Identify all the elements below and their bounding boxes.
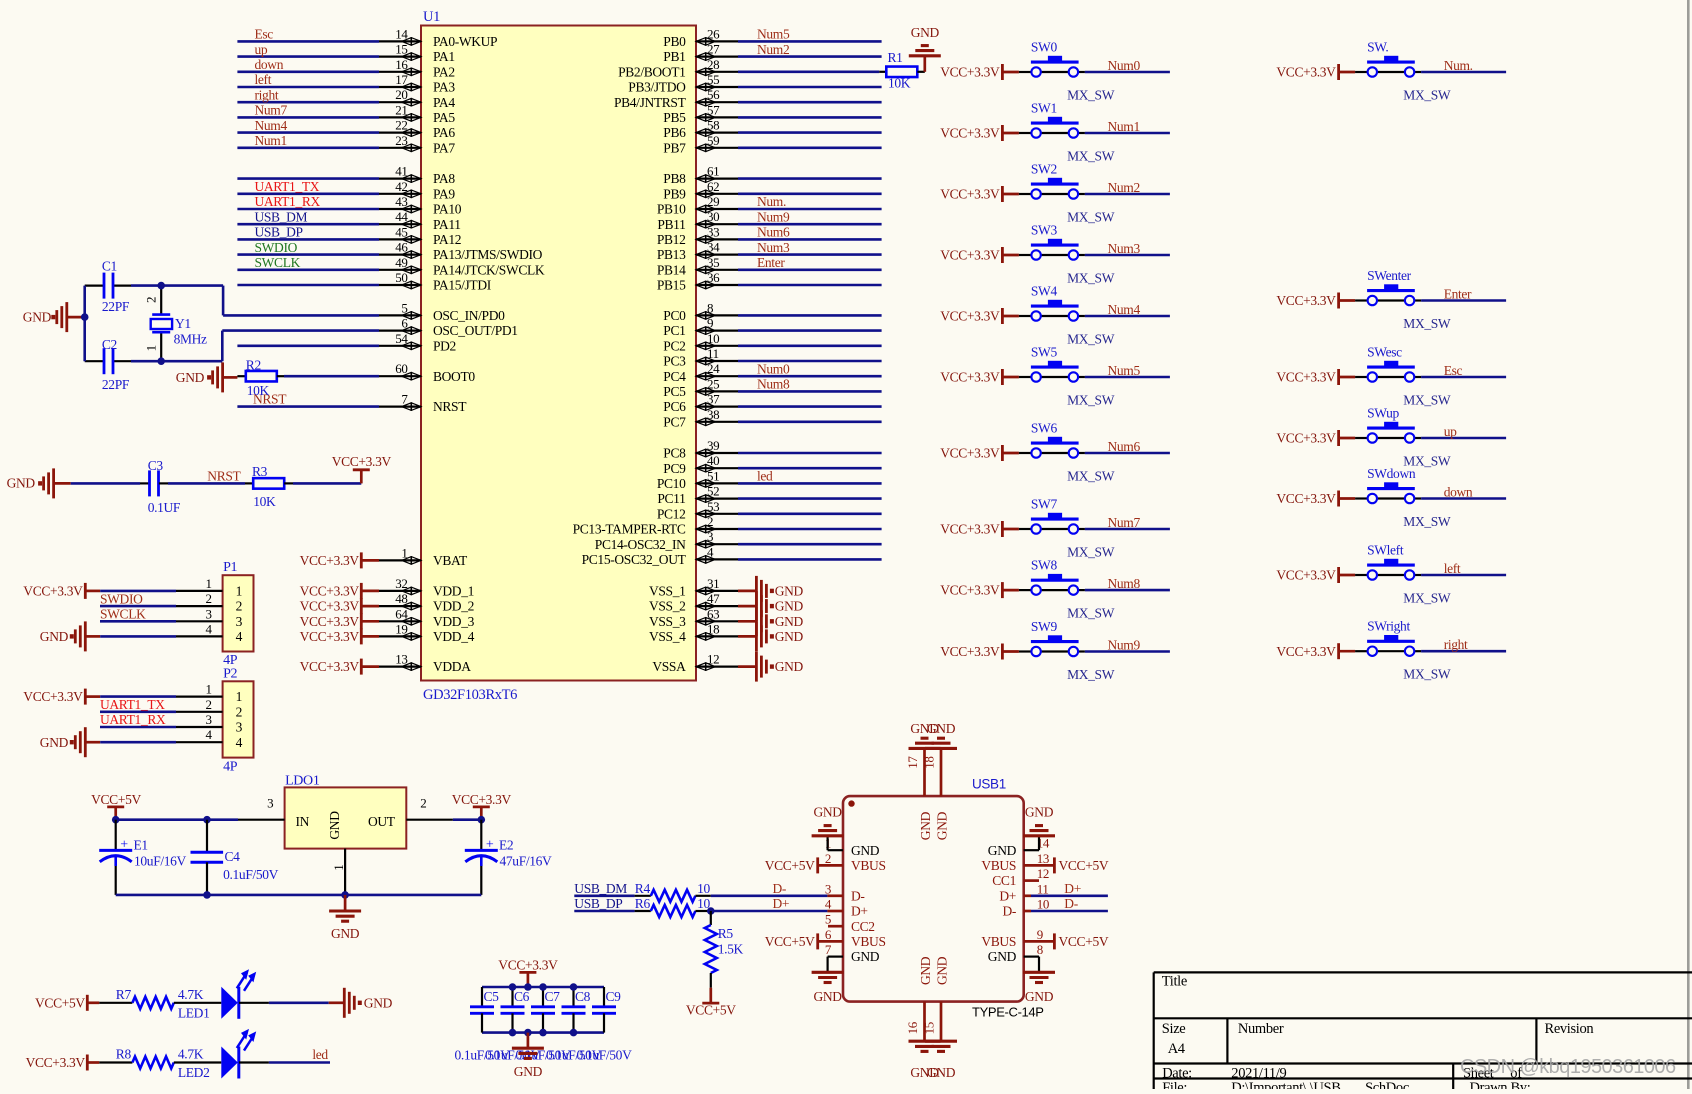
- net label USB_DM: [255, 209, 308, 224]
- svg-text:VCC+3.3V: VCC+3.3V: [940, 248, 1000, 263]
- pin 38 PC7: [663, 407, 738, 430]
- power VCC+3.3V at SW4: [940, 308, 1019, 324]
- svg-text:12: 12: [1037, 866, 1049, 881]
- net label Num2: [757, 42, 789, 57]
- svg-text:56: 56: [707, 87, 720, 102]
- svg-text:GND: GND: [851, 843, 880, 858]
- svg-text:SWdown: SWdown: [1367, 466, 1416, 481]
- junction cap bank top: [509, 983, 517, 991]
- wire crystal left vertical: [83, 286, 86, 362]
- svg-text:50: 50: [395, 270, 407, 285]
- power VCC+5V: [35, 995, 99, 1011]
- svg-text:Num0: Num0: [757, 361, 790, 376]
- wire net from pin 36: [738, 284, 882, 287]
- svg-text:42: 42: [395, 179, 407, 194]
- net label up: [1444, 424, 1457, 439]
- connector P2 body: [223, 666, 254, 774]
- pin 61 PB8: [663, 164, 738, 187]
- svg-text:4: 4: [205, 727, 212, 742]
- value 0.1uF/50V of C5: [455, 1048, 511, 1063]
- net label Num3: [1108, 241, 1141, 256]
- svg-text:GND: GND: [775, 614, 804, 629]
- pin 11 PC3: [663, 346, 738, 369]
- wire Num3: [1085, 254, 1170, 257]
- pin 35 PB14: [657, 255, 738, 278]
- svg-text:10K: 10K: [888, 76, 911, 91]
- junction C4 top: [203, 816, 211, 824]
- svg-text:Enter: Enter: [757, 255, 785, 270]
- svg-text:Enter: Enter: [1444, 286, 1472, 301]
- wire net from pin 62: [738, 193, 882, 196]
- svg-text:2: 2: [707, 514, 713, 529]
- pin 12 CC1 of USB1: [992, 866, 1049, 888]
- wire net from pin 10: [738, 344, 882, 347]
- net label down: [1444, 484, 1473, 499]
- svg-text:2: 2: [236, 599, 242, 614]
- pin 19 VDD_4: [379, 621, 475, 644]
- switch SWup: [1355, 406, 1451, 469]
- svg-text:VDDA: VDDA: [433, 659, 471, 674]
- wire LDO GND pin 1: [331, 849, 346, 895]
- svg-text:PC14-OSC32_IN: PC14-OSC32_IN: [595, 537, 686, 552]
- svg-text:SW6: SW6: [1031, 421, 1058, 436]
- power VCC+3.3V at SW7: [940, 521, 1019, 537]
- switch SW6: [1019, 421, 1115, 484]
- wire net to pin 43: [237, 208, 379, 211]
- pin 3 of P1: [176, 606, 243, 629]
- svg-text:SWCLK: SWCLK: [255, 255, 301, 270]
- svg-text:MX_SW: MX_SW: [1403, 316, 1451, 331]
- switch SW8: [1019, 558, 1115, 621]
- pin 14 GND of USB1: [988, 836, 1050, 858]
- switch SW4: [1019, 284, 1115, 347]
- svg-text:62: 62: [707, 179, 719, 194]
- svg-text:35: 35: [707, 255, 719, 270]
- wire net from pin 57: [738, 116, 882, 119]
- pin 29 PB10: [657, 194, 738, 217]
- svg-text:16: 16: [905, 1021, 920, 1034]
- svg-text:60: 60: [395, 361, 407, 376]
- svg-text:PC0: PC0: [663, 308, 686, 323]
- pin 52 PC11: [657, 484, 738, 507]
- pin 5 OSC_IN/PD0: [379, 300, 505, 323]
- svg-text:led: led: [757, 469, 773, 484]
- svg-text:Num.: Num.: [757, 194, 786, 209]
- svg-text:VBUS: VBUS: [851, 934, 886, 949]
- svg-text:19: 19: [395, 621, 407, 636]
- power VCC+3.3V at SW9: [940, 644, 1019, 660]
- svg-text:55: 55: [707, 72, 719, 87]
- svg-text:D+: D+: [851, 904, 868, 919]
- value 0.1uF/50V of C7: [516, 1048, 572, 1063]
- LED LED1: [178, 969, 256, 1020]
- pin 28 PB2/BOOT1: [618, 57, 738, 80]
- svg-text:9: 9: [707, 316, 713, 331]
- svg-text:Num8: Num8: [1108, 576, 1141, 591]
- svg-text:left: left: [255, 72, 272, 87]
- svg-text:38: 38: [707, 407, 719, 422]
- svg-text:D-: D-: [773, 881, 787, 896]
- pin 31 VSS_1: [649, 576, 738, 599]
- svg-text:VCC+3.3V: VCC+3.3V: [940, 644, 1000, 659]
- svg-text:20: 20: [395, 87, 407, 102]
- svg-text:Num4: Num4: [255, 118, 288, 133]
- pin 10 PC2: [663, 331, 738, 354]
- pin 18 GND of USB1: [922, 748, 950, 840]
- net label Num.: [757, 194, 786, 209]
- svg-text:39: 39: [707, 438, 719, 453]
- svg-text:59: 59: [707, 133, 719, 148]
- svg-text:VCC+3.3V: VCC+3.3V: [1276, 568, 1336, 583]
- svg-text:27: 27: [707, 42, 720, 57]
- power VCC+3.3V at SWdown: [1276, 491, 1355, 507]
- svg-text:4: 4: [825, 897, 832, 912]
- wire Esc: [1421, 376, 1506, 379]
- ground at VSS_2: [738, 591, 803, 621]
- svg-text:PA10: PA10: [433, 202, 462, 217]
- wire net from pin 51: [738, 482, 882, 485]
- svg-text:VCC+3.3V: VCC+3.3V: [300, 584, 360, 599]
- svg-text:OSC_OUT/PD1: OSC_OUT/PD1: [433, 323, 518, 338]
- svg-text:SW5: SW5: [1031, 345, 1058, 360]
- pin 14 PA0-WKUP: [379, 26, 497, 49]
- net label Num4: [255, 118, 288, 133]
- svg-text:32: 32: [395, 576, 407, 591]
- pin 30 PB11: [657, 209, 738, 232]
- svg-text:2: 2: [825, 851, 831, 866]
- wire VCC+5V to IN pin 3: [116, 796, 285, 820]
- capacitor C3: [148, 458, 181, 515]
- svg-text:VBUS: VBUS: [981, 934, 1016, 949]
- svg-text:2: 2: [205, 697, 211, 712]
- svg-text:PC11: PC11: [657, 491, 685, 506]
- svg-text:GND: GND: [775, 659, 804, 674]
- ground LDO: [329, 895, 361, 941]
- pin 2 VBUS of USB1: [818, 851, 886, 873]
- svg-text:PB5: PB5: [663, 110, 686, 125]
- svg-text:44: 44: [395, 209, 408, 224]
- svg-text:0.1uF/50V: 0.1uF/50V: [223, 867, 279, 882]
- svg-text:UART1_RX: UART1_RX: [100, 712, 166, 727]
- svg-text:25: 25: [707, 376, 719, 391]
- pin 1 VBAT: [379, 545, 468, 568]
- svg-text:61: 61: [707, 164, 719, 179]
- wire net from pin 3: [738, 543, 882, 546]
- svg-text:21: 21: [395, 102, 407, 117]
- capacitor C6: [501, 987, 530, 1033]
- svg-text:R6: R6: [635, 896, 651, 911]
- wire up: [1421, 437, 1506, 440]
- wire left: [1421, 574, 1506, 577]
- svg-text:VCC+3.3V: VCC+3.3V: [300, 599, 360, 614]
- svg-text:PA1: PA1: [433, 49, 455, 64]
- svg-text:VBAT: VBAT: [433, 553, 468, 568]
- wire Enter: [1421, 299, 1506, 302]
- svg-text:10K: 10K: [247, 383, 270, 398]
- pin 34 PB13: [657, 240, 738, 263]
- svg-text:SWDIO: SWDIO: [255, 240, 298, 255]
- svg-text:11: 11: [707, 346, 719, 361]
- svg-text:Num0: Num0: [1108, 58, 1141, 73]
- net label USB_DP: [574, 896, 622, 911]
- junction crystal gnd: [81, 313, 89, 321]
- svg-text:MX_SW: MX_SW: [1403, 590, 1451, 605]
- capacitor E1 electrolytic: [99, 820, 186, 895]
- svg-text:VCC+3.3V: VCC+3.3V: [26, 1055, 86, 1070]
- net label UART1_TX: [100, 697, 176, 712]
- pin 23 PA7: [379, 133, 455, 156]
- pin 63 VSS_3: [649, 606, 738, 629]
- svg-text:Num9: Num9: [757, 209, 790, 224]
- svg-text:13: 13: [1037, 851, 1049, 866]
- power VCC+3.3V at VDDA: [300, 659, 379, 675]
- pin 6 VBUS of USB1: [818, 927, 886, 949]
- net label Num8: [757, 377, 790, 392]
- wire cap bank bottom rail: [482, 1031, 604, 1034]
- capacitor C5: [470, 987, 499, 1033]
- svg-text:Revision: Revision: [1545, 1021, 1595, 1037]
- junction LDO gnd: [341, 891, 349, 899]
- svg-text:GND: GND: [813, 989, 842, 1004]
- svg-text:33: 33: [707, 224, 719, 239]
- wire net from pin 9: [738, 329, 882, 332]
- svg-text:P1: P1: [223, 560, 237, 575]
- wire net from pin 55: [738, 86, 882, 89]
- svg-text:VCC+3.3V: VCC+3.3V: [1276, 65, 1336, 80]
- capacitor C1: [102, 258, 130, 314]
- wire Num6: [1085, 452, 1170, 455]
- svg-text:1: 1: [144, 345, 159, 351]
- svg-text:VCC+3.3V: VCC+3.3V: [300, 553, 360, 568]
- svg-text:VSSA: VSSA: [652, 659, 686, 674]
- pin 15 GND of USB1: [922, 956, 950, 1041]
- connector P1 body: [223, 560, 254, 668]
- pin 6 OSC_OUT/PD1: [379, 316, 518, 339]
- svg-text:GND: GND: [364, 995, 393, 1010]
- svg-text:VCC+3.3V: VCC+3.3V: [940, 446, 1000, 461]
- svg-text:Esc: Esc: [255, 27, 274, 42]
- wire Num7: [1085, 528, 1170, 531]
- junction cap bank bottom: [509, 1029, 517, 1037]
- svg-text:6: 6: [825, 927, 832, 942]
- svg-text:VCC+3.3V: VCC+3.3V: [1276, 293, 1336, 308]
- svg-text:24: 24: [707, 361, 720, 376]
- wire net to pin 42: [237, 193, 379, 196]
- ground USB bottom: [909, 1041, 958, 1080]
- svg-text:File:: File:: [1162, 1080, 1187, 1089]
- svg-text:D-: D-: [1064, 896, 1078, 911]
- svg-text:D+: D+: [999, 888, 1016, 903]
- svg-text:PC6: PC6: [663, 399, 686, 414]
- wire down: [1421, 497, 1506, 500]
- svg-text:2: 2: [420, 796, 426, 811]
- pin 21 PA5: [379, 102, 455, 125]
- svg-text:UART1_TX: UART1_TX: [100, 697, 165, 712]
- svg-text:VCC+3.3V: VCC+3.3V: [498, 958, 558, 973]
- wire net from pin 56: [738, 101, 882, 104]
- switch SW3: [1019, 223, 1115, 286]
- svg-text:Title: Title: [1162, 973, 1187, 989]
- ground USB pin14: [1023, 805, 1055, 836]
- net label SWDIO: [100, 591, 176, 606]
- junction cap bank top: [539, 983, 547, 991]
- wire net from pin 52: [738, 497, 882, 500]
- svg-text:C4: C4: [225, 849, 241, 864]
- pin 27 PB1: [663, 42, 738, 65]
- net label UART1_RX: [255, 194, 321, 209]
- svg-text:CSDN @kbq1950361006: CSDN @kbq1950361006: [1460, 1056, 1676, 1078]
- ground USB pin1: [812, 805, 844, 836]
- svg-text:Num7: Num7: [1108, 515, 1141, 530]
- junction crystal bottom: [157, 357, 165, 365]
- power VCC+3.3V at SW5: [940, 369, 1019, 385]
- switch SW9: [1019, 619, 1115, 682]
- svg-text:+: +: [486, 838, 494, 853]
- svg-text:Num6: Num6: [1108, 439, 1141, 454]
- wire net from pin 59: [738, 147, 882, 150]
- svg-text:PA5: PA5: [433, 110, 455, 125]
- svg-text:43: 43: [395, 194, 407, 209]
- svg-text:VDD_2: VDD_2: [433, 599, 474, 614]
- wire cap bank top rail: [482, 986, 604, 989]
- svg-text:D-: D-: [1002, 904, 1016, 919]
- svg-text:SchDoc: SchDoc: [1365, 1080, 1409, 1089]
- svg-text:Num4: Num4: [1108, 302, 1141, 317]
- svg-text:PB12: PB12: [657, 232, 686, 247]
- svg-text:SW1: SW1: [1031, 101, 1057, 116]
- net label NRST: [207, 468, 241, 483]
- wire net to pin 21: [237, 116, 379, 119]
- pin 16 PA2: [379, 57, 455, 80]
- pin 64 VDD_3: [379, 606, 475, 629]
- net label left: [1444, 561, 1461, 576]
- pin 13 VBUS of USB1: [981, 851, 1054, 873]
- svg-text:MX_SW: MX_SW: [1403, 514, 1451, 529]
- LED LED2: [178, 1029, 256, 1080]
- pin 25 PC5: [663, 376, 738, 399]
- svg-text:9: 9: [1037, 927, 1043, 942]
- svg-text:PB10: PB10: [657, 202, 686, 217]
- svg-text:10: 10: [707, 331, 719, 346]
- junction crystal top: [157, 282, 165, 290]
- svg-text:GND: GND: [775, 599, 804, 614]
- svg-text:PA0-WKUP: PA0-WKUP: [433, 34, 497, 49]
- svg-text:PB6: PB6: [663, 125, 686, 140]
- svg-text:13: 13: [395, 652, 407, 667]
- net label Esc: [1444, 363, 1463, 378]
- wire crystal bottom rail: [85, 331, 379, 362]
- resistor R6: [574, 896, 711, 917]
- power VCC+3.3V: [332, 454, 392, 470]
- pin 24 PC4: [663, 361, 738, 384]
- wire LED2 led net: [239, 1061, 330, 1063]
- svg-text:MX_SW: MX_SW: [1067, 667, 1115, 682]
- svg-text:Num2: Num2: [1108, 180, 1140, 195]
- pin 60 BOOT0: [379, 361, 475, 384]
- svg-text:3: 3: [707, 529, 713, 544]
- svg-text:VDD_3: VDD_3: [433, 614, 475, 629]
- svg-text:PC9: PC9: [663, 461, 686, 476]
- pin 8 GND of USB1: [988, 942, 1043, 972]
- svg-text:MX_SW: MX_SW: [1067, 331, 1115, 346]
- svg-text:D+: D+: [1064, 881, 1081, 896]
- wire net to pin 22: [237, 131, 379, 134]
- svg-text:SWenter: SWenter: [1367, 268, 1412, 283]
- net label Num.: [1444, 58, 1473, 73]
- net label led: [757, 469, 773, 484]
- svg-text:VCC+3.3V: VCC+3.3V: [940, 309, 1000, 324]
- ground at VSSA: [738, 652, 803, 682]
- switch SW.: [1355, 40, 1451, 103]
- svg-text:LED2: LED2: [178, 1065, 210, 1080]
- svg-text:USB1: USB1: [972, 777, 1006, 792]
- wire net from pin 35: [738, 268, 882, 271]
- power VCC+3.3V at VDD_4: [300, 628, 379, 644]
- wire net from pin 37: [738, 405, 882, 408]
- svg-text:OSC_IN/PD0: OSC_IN/PD0: [433, 308, 505, 323]
- wire net from pin 25: [738, 390, 882, 393]
- power VCC+3.3V at SW2: [940, 186, 1019, 202]
- svg-text:USB_DM: USB_DM: [255, 209, 308, 224]
- svg-text:PB13: PB13: [657, 247, 686, 262]
- svg-text:PC15-OSC32_OUT: PC15-OSC32_OUT: [582, 552, 687, 567]
- svg-text:VCC+3.3V: VCC+3.3V: [940, 583, 1000, 598]
- svg-text:4: 4: [236, 735, 243, 750]
- svg-text:D-: D-: [851, 888, 865, 903]
- capacitor C7: [531, 987, 560, 1033]
- svg-text:VCC+5V: VCC+5V: [91, 792, 141, 807]
- svg-text:37: 37: [707, 392, 720, 407]
- switch SWleft: [1355, 543, 1451, 606]
- svg-text:CC2: CC2: [851, 919, 875, 934]
- svg-text:PA8: PA8: [433, 171, 455, 186]
- power VCC+3.3V at SW3: [940, 247, 1019, 263]
- svg-text:PC8: PC8: [663, 446, 686, 461]
- svg-text:VCC+3.3V: VCC+3.3V: [1276, 644, 1336, 659]
- net label Num1: [1108, 119, 1140, 134]
- svg-text:P2: P2: [223, 666, 237, 681]
- svg-text:30: 30: [707, 209, 719, 224]
- pin 37 PC6: [663, 392, 738, 415]
- svg-text:VCC+3.3V: VCC+3.3V: [23, 584, 83, 599]
- svg-text:VCC+3.3V: VCC+3.3V: [940, 126, 1000, 141]
- ground LED1: [344, 988, 392, 1018]
- pin 58 PB6: [663, 118, 738, 141]
- wire R3 to VCC: [284, 470, 361, 484]
- wire D- to USB pin 3: [711, 894, 828, 897]
- net label UART1_TX: [255, 179, 320, 194]
- pin 1 GND of USB1: [825, 836, 880, 858]
- wire Num.: [1421, 71, 1506, 74]
- pin 4 of P1: [176, 621, 243, 644]
- svg-text:led: led: [312, 1047, 328, 1062]
- wire net from pin 27: [738, 55, 882, 58]
- net label Num0: [1108, 58, 1141, 73]
- svg-text:SWleft: SWleft: [1367, 543, 1404, 558]
- svg-text:GND: GND: [927, 721, 956, 736]
- net label Enter: [757, 255, 785, 270]
- ground USB pin7: [812, 972, 844, 1004]
- ground crystal: [23, 302, 85, 332]
- wire USB D- right: [1031, 896, 1108, 911]
- pin 32 VDD_1: [379, 576, 474, 599]
- svg-text:IN: IN: [296, 814, 310, 829]
- svg-text:C5: C5: [484, 989, 500, 1004]
- sheet border: [1687, 0, 1690, 1089]
- pin 1 of P2: [176, 682, 242, 705]
- wire right: [1421, 650, 1506, 653]
- ground: [40, 727, 176, 757]
